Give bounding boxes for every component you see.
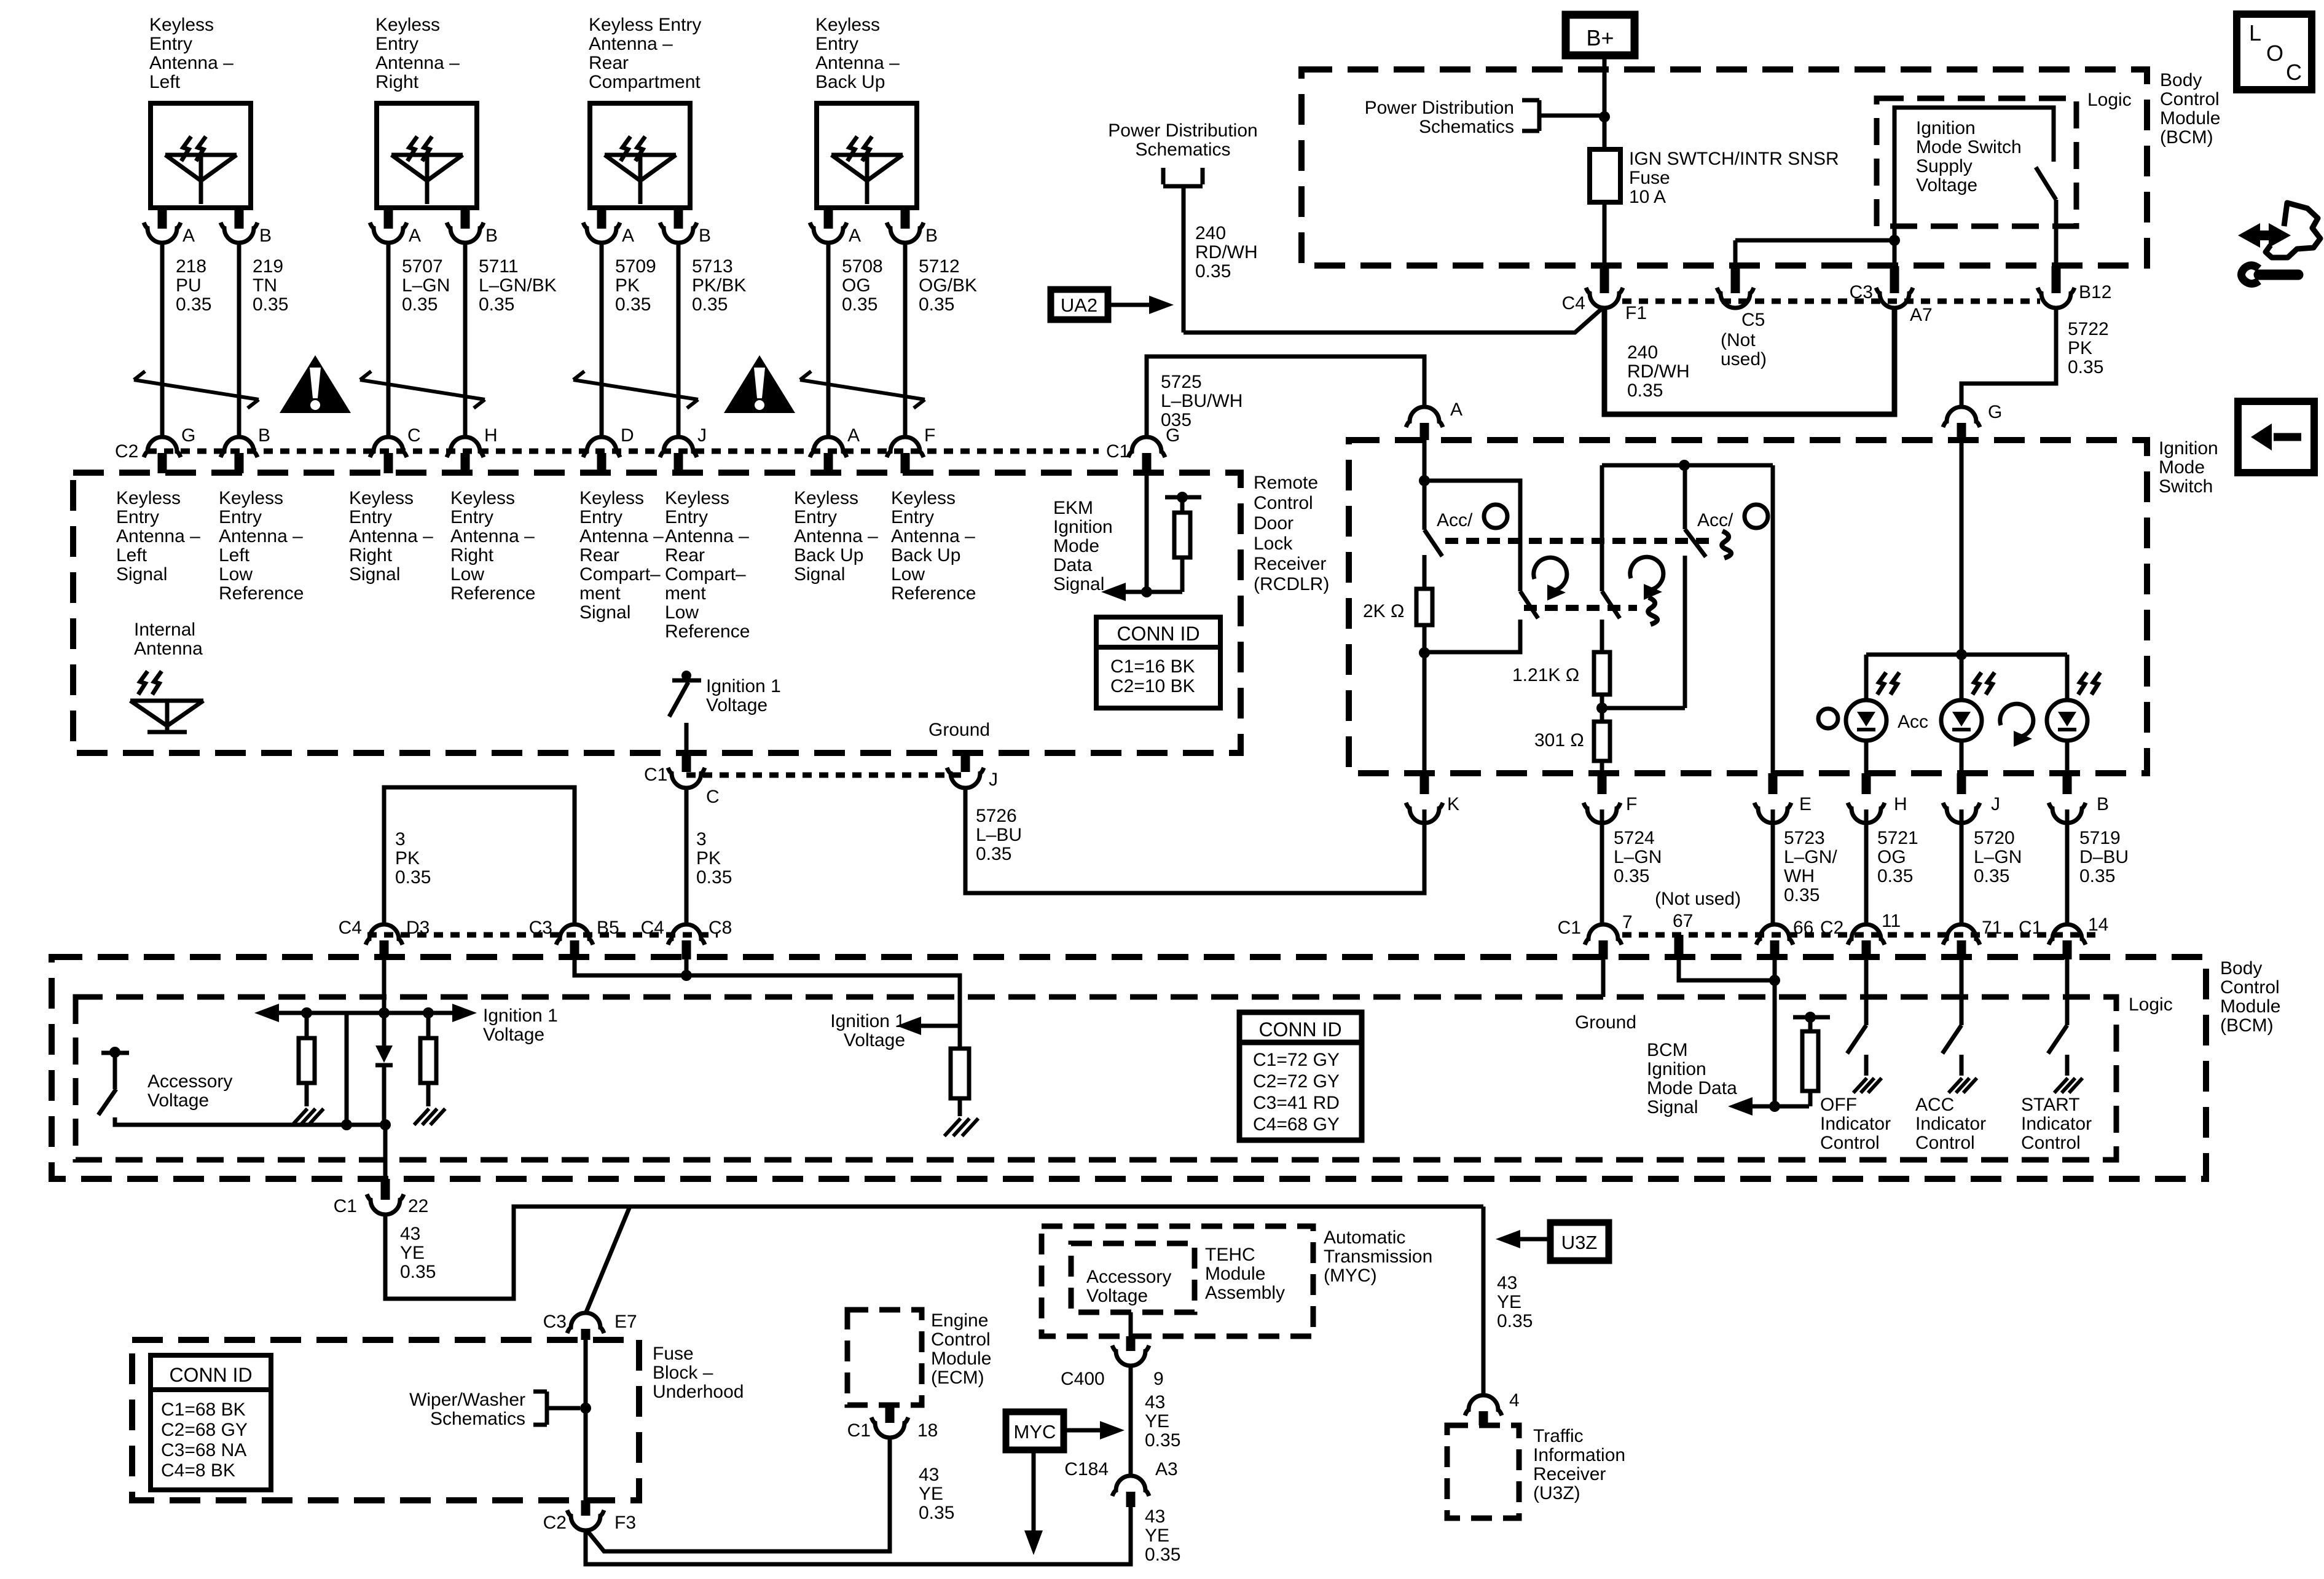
svg-text:YE: YE bbox=[919, 1484, 943, 1504]
BCM ground wire from pin 7 bbox=[1575, 959, 1636, 1033]
svg-text:0.35: 0.35 bbox=[842, 294, 877, 315]
RCDLR internal label: Antenna – Left Signal bbox=[116, 488, 200, 585]
antenna box: Keyless Entry Antenna – Back Up bbox=[817, 103, 917, 208]
svg-text:J: J bbox=[697, 425, 707, 446]
BCM ACC indicator driver bbox=[1915, 959, 1986, 1153]
svg-text:C3: C3 bbox=[1850, 282, 1873, 302]
label Body Control Module (BCM) lower bbox=[2220, 958, 2280, 1036]
svg-text:OG: OG bbox=[1877, 847, 1906, 867]
wire 5712 OG/BK 0.35 bbox=[905, 243, 977, 437]
svg-text:(ECM): (ECM) bbox=[931, 1368, 984, 1388]
svg-text:Acc/: Acc/ bbox=[1697, 510, 1733, 530]
B+ power feed box bbox=[1566, 15, 1635, 55]
svg-text:Compart–: Compart– bbox=[665, 564, 746, 585]
svg-text:Data: Data bbox=[1053, 555, 1093, 575]
wire 240 RD/WH from F1 to A7 (U path) bbox=[1604, 308, 1894, 414]
label: Keyless Entry Antenna – Left bbox=[149, 15, 234, 92]
Traffic Information Receiver dashed box bbox=[1447, 1425, 1519, 1518]
svg-text:Ignition 1: Ignition 1 bbox=[830, 1011, 905, 1031]
svg-text:ACC: ACC bbox=[1915, 1095, 1954, 1115]
connector pin A of Right antenna bbox=[370, 208, 421, 246]
svg-text:5713: 5713 bbox=[692, 256, 733, 277]
svg-text:Control: Control bbox=[1254, 493, 1313, 513]
connector pin A of Compartment antenna bbox=[583, 208, 634, 246]
warning triangle 2 bbox=[724, 355, 795, 413]
svg-text:0.35: 0.35 bbox=[615, 294, 651, 315]
connector pin B of Left antenna bbox=[221, 208, 272, 246]
BCM START indicator driver bbox=[2021, 959, 2092, 1153]
svg-text:Antenna –: Antenna – bbox=[116, 526, 200, 546]
IMS pin K bbox=[1406, 773, 1459, 823]
svg-text:TN: TN bbox=[253, 275, 277, 296]
RCDLR internal label: Antenna – Back Up Signal bbox=[794, 488, 878, 585]
svg-text:ment: ment bbox=[665, 583, 706, 604]
svg-text:C8: C8 bbox=[709, 918, 732, 938]
BCM internal resistor 2 to ground bbox=[414, 1013, 446, 1125]
svg-text:Module: Module bbox=[2160, 108, 2220, 128]
svg-text:71: 71 bbox=[1982, 918, 2002, 938]
svg-text:Signal: Signal bbox=[1647, 1097, 1698, 1117]
svg-text:Assembly: Assembly bbox=[1205, 1283, 1285, 1303]
accessory voltage dashed box bbox=[1071, 1243, 1195, 1312]
svg-text:F: F bbox=[924, 425, 935, 446]
label 43 YE 0.35 (A3 wire) bbox=[1145, 1506, 1180, 1565]
svg-text:Logic: Logic bbox=[2087, 90, 2132, 110]
BCM pin C8 (C4) bbox=[641, 918, 732, 959]
wire 43 YE C400 to C184 bbox=[1131, 1367, 1180, 1476]
label Ignition Mode Switch bbox=[2159, 438, 2218, 497]
svg-text:OG/BK: OG/BK bbox=[919, 275, 977, 296]
svg-text:Power Distribution: Power Distribution bbox=[1365, 98, 1514, 118]
svg-text:Mode Data: Mode Data bbox=[1647, 1078, 1737, 1098]
svg-text:Underhood: Underhood bbox=[653, 1382, 744, 1402]
svg-text:Module: Module bbox=[931, 1349, 991, 1369]
wire 5723 L-GN/WH (E to BCM 66) bbox=[1773, 809, 1837, 925]
IMS wafer D column (Acc/) bbox=[1602, 465, 1768, 708]
RCDLR internal label: Antenna – Rear Compart– ment Signal bbox=[579, 488, 664, 623]
BCM pin A7 (C3) bbox=[1850, 240, 1933, 325]
svg-text:Low: Low bbox=[219, 564, 253, 585]
IMS rotation symbol 1 bbox=[1534, 557, 1567, 600]
svg-text:G: G bbox=[1988, 402, 2002, 422]
BCM internal: B5/C8 to ignition1 resistor bbox=[575, 959, 960, 1026]
RCDLR internal label: Antenna – Back Up Low Reference bbox=[891, 488, 976, 604]
BCM pin 66 (C2) bbox=[1756, 918, 1843, 959]
svg-text:0.35: 0.35 bbox=[919, 294, 954, 315]
svg-text:O: O bbox=[2266, 41, 2283, 66]
svg-text:0.35: 0.35 bbox=[176, 294, 211, 315]
IMS pin F bbox=[1584, 773, 1637, 823]
BCM pin 71 bbox=[1943, 918, 2002, 959]
svg-text:D3: D3 bbox=[406, 918, 430, 938]
connector pin B of Compartment antenna bbox=[660, 208, 711, 246]
svg-text:Entry: Entry bbox=[219, 507, 262, 527]
svg-text:0.35: 0.35 bbox=[1497, 1311, 1533, 1331]
svg-text:66: 66 bbox=[1793, 918, 1813, 938]
svg-text:C4=8 BK: C4=8 BK bbox=[161, 1460, 235, 1481]
svg-text:Antenna –: Antenna – bbox=[375, 53, 460, 73]
svg-text:Engine: Engine bbox=[931, 1310, 988, 1331]
TEHC module assembly dashed box bbox=[1042, 1226, 1313, 1336]
svg-text:A3: A3 bbox=[1155, 1459, 1178, 1479]
IMS Acc/ label with circle (wafer A) bbox=[1437, 505, 1507, 530]
svg-text:G: G bbox=[181, 425, 195, 446]
svg-text:Mode: Mode bbox=[1053, 536, 1099, 556]
hand and wrench service icon bbox=[2238, 203, 2320, 284]
svg-text:Antenna –: Antenna – bbox=[794, 526, 878, 546]
svg-text:3: 3 bbox=[395, 829, 406, 849]
svg-text:(U3Z): (U3Z) bbox=[1533, 1483, 1580, 1503]
svg-text:B: B bbox=[2097, 794, 2109, 814]
svg-text:Low: Low bbox=[665, 602, 699, 623]
svg-text:H: H bbox=[1894, 794, 1907, 814]
BCM connector row dotted (right) bbox=[1622, 932, 2095, 938]
svg-text:Keyless: Keyless bbox=[891, 488, 956, 508]
svg-text:Keyless: Keyless bbox=[665, 488, 729, 508]
svg-text:4: 4 bbox=[1509, 1390, 1520, 1411]
svg-text:5721: 5721 bbox=[1877, 828, 1918, 848]
IMS mechanical link dashed line 2 bbox=[1524, 597, 1657, 624]
wiper/washer schematics reference bbox=[409, 1390, 580, 1429]
svg-text:Right: Right bbox=[375, 72, 419, 92]
svg-text:Lock: Lock bbox=[1254, 534, 1293, 554]
svg-text:C3=68 NA: C3=68 NA bbox=[161, 1440, 246, 1460]
svg-text:0.35: 0.35 bbox=[696, 867, 732, 888]
svg-text:PK: PK bbox=[395, 848, 420, 868]
svg-text:Ground: Ground bbox=[1575, 1012, 1636, 1033]
svg-text:C: C bbox=[407, 425, 421, 446]
svg-text:B: B bbox=[258, 425, 270, 446]
svg-text:Signal: Signal bbox=[349, 564, 400, 585]
svg-text:0.35: 0.35 bbox=[2079, 866, 2115, 886]
wire 5725 L-BU/WH 035 bbox=[1147, 356, 1424, 437]
svg-text:Fuse: Fuse bbox=[653, 1344, 694, 1364]
svg-text:C2=10 BK: C2=10 BK bbox=[1110, 676, 1195, 696]
svg-text:Remote: Remote bbox=[1254, 473, 1318, 493]
IMS pin G bbox=[1943, 402, 2002, 440]
svg-text:0.35: 0.35 bbox=[1614, 866, 1649, 886]
svg-text:Accessory: Accessory bbox=[1086, 1267, 1171, 1287]
svg-text:10 A: 10 A bbox=[1629, 187, 1666, 207]
svg-text:E: E bbox=[1799, 794, 1812, 814]
EKM wire from RCDLR C1-G down (internal) bbox=[1145, 455, 1149, 592]
BCM ignition mode data signal arrow bbox=[1647, 1040, 1809, 1117]
wire 5720 L-GN (J to BCM 71) bbox=[1961, 809, 2022, 925]
svg-text:Antenna –: Antenna – bbox=[149, 53, 234, 73]
RCDLR internal label: Antenna – Right Signal bbox=[349, 488, 433, 585]
Body Control Module top dashed box bbox=[1301, 69, 2147, 266]
svg-text:5709: 5709 bbox=[615, 256, 656, 277]
svg-text:Ground: Ground bbox=[928, 720, 990, 740]
BCM wire to pin 22 bbox=[383, 1125, 388, 1179]
svg-text:0.35: 0.35 bbox=[692, 294, 728, 315]
wire 240 RD/WH from fuse block feed (left) bbox=[1108, 120, 1257, 333]
connector C400 pin 9 bbox=[1061, 1345, 1164, 1389]
svg-text:Antenna –: Antenna – bbox=[349, 526, 433, 546]
svg-text:5724: 5724 bbox=[1614, 828, 1655, 848]
svg-text:Antenna –: Antenna – bbox=[665, 526, 749, 546]
label Logic (lower) bbox=[2129, 994, 2173, 1015]
RCDLR pin J bbox=[660, 425, 707, 473]
svg-text:43: 43 bbox=[400, 1224, 420, 1244]
RCDLR pin G bbox=[144, 425, 195, 473]
svg-text:0.35: 0.35 bbox=[479, 294, 514, 315]
svg-text:Antenna –: Antenna – bbox=[891, 526, 975, 546]
fuse block pin F3 (C2) bbox=[543, 1500, 636, 1533]
BCM pin B5 (C3) bbox=[529, 918, 619, 959]
svg-text:5719: 5719 bbox=[2079, 828, 2121, 848]
svg-text:18: 18 bbox=[917, 1420, 938, 1441]
LOC box bbox=[2237, 14, 2312, 90]
svg-text:Entry: Entry bbox=[665, 507, 708, 527]
svg-text:Left: Left bbox=[149, 72, 181, 92]
wire 5713 PK/BK 0.35 bbox=[678, 243, 746, 437]
svg-text:Antenna –: Antenna – bbox=[219, 526, 303, 546]
svg-text:Ignition 1: Ignition 1 bbox=[483, 1006, 558, 1026]
svg-text:C5: C5 bbox=[1741, 310, 1765, 330]
RCDLR ignition 1 voltage switch bbox=[669, 671, 781, 753]
svg-text:C2: C2 bbox=[543, 1513, 567, 1533]
svg-text:0.35: 0.35 bbox=[395, 867, 431, 888]
svg-text:Indicator: Indicator bbox=[1820, 1114, 1891, 1134]
svg-text:Schematics: Schematics bbox=[1135, 140, 1230, 160]
svg-text:Keyless: Keyless bbox=[815, 15, 880, 35]
wire branch down to fuse block E7 bbox=[586, 1207, 630, 1313]
svg-text:L–GN: L–GN bbox=[1614, 847, 1662, 867]
svg-text:Ignition: Ignition bbox=[1053, 517, 1113, 537]
BCM internal: 67 jumper to 66 bbox=[1679, 958, 1780, 986]
svg-text:1.21K Ω: 1.21K Ω bbox=[1512, 665, 1579, 685]
IMS pin A bbox=[1406, 400, 1462, 440]
antenna box: Keyless Entry Antenna – Left bbox=[151, 103, 251, 208]
svg-text:C2: C2 bbox=[115, 441, 138, 462]
svg-text:K: K bbox=[1447, 794, 1459, 814]
connector line C1 (RCDLR bottom) dotted bbox=[686, 773, 965, 778]
svg-text:5707: 5707 bbox=[402, 256, 443, 277]
svg-text:Mode Switch: Mode Switch bbox=[1916, 137, 2022, 157]
BCM internal resistor 1 to ground bbox=[292, 1013, 324, 1125]
BCM lower Logic dashed box bbox=[76, 997, 2116, 1160]
RCDLR internal label: Antenna – Left Low Reference bbox=[219, 488, 304, 604]
svg-text:Entry: Entry bbox=[116, 507, 159, 527]
svg-text:5708: 5708 bbox=[842, 256, 883, 277]
BCM pin D3 (C4) bbox=[339, 918, 430, 959]
svg-text:Keyless: Keyless bbox=[450, 488, 515, 508]
label Traffic Information Receiver (U3Z) bbox=[1533, 1426, 1625, 1503]
svg-text:Keyless: Keyless bbox=[375, 15, 440, 35]
svg-text:J: J bbox=[989, 770, 998, 790]
IMS LED 2 (Acc) bbox=[1941, 655, 1995, 773]
twisted-pair mark on antenna 1 wires bbox=[134, 371, 259, 408]
svg-text:Voltage: Voltage bbox=[483, 1025, 544, 1045]
svg-text:C1: C1 bbox=[1106, 441, 1129, 462]
svg-text:F: F bbox=[1626, 794, 1637, 814]
svg-text:YE: YE bbox=[400, 1243, 425, 1263]
svg-text:Receiver: Receiver bbox=[1254, 554, 1326, 574]
twisted-pair mark on antenna 3 wires bbox=[573, 371, 698, 408]
svg-text:C1: C1 bbox=[334, 1196, 357, 1216]
svg-text:D–BU: D–BU bbox=[2079, 847, 2129, 867]
svg-text:Acc/: Acc/ bbox=[1437, 510, 1473, 530]
wire 43 YE to traffic information receiver bbox=[1483, 1207, 1533, 1396]
RCDLR ground wire to pin J bbox=[928, 720, 990, 772]
svg-text:C400: C400 bbox=[1061, 1369, 1105, 1389]
svg-text:Entry: Entry bbox=[149, 34, 192, 54]
svg-text:B: B bbox=[925, 226, 938, 246]
IMS wafer C column with 1.21K and 301 resistors bbox=[1512, 465, 1620, 773]
RCDLR pin G bbox=[1128, 425, 1180, 473]
svg-text:Back Up: Back Up bbox=[794, 545, 863, 565]
TEHC wire down to C400 bbox=[1129, 1312, 1133, 1351]
svg-text:OFF: OFF bbox=[1820, 1095, 1857, 1115]
wire 5711 L–GN/BK 0.35 bbox=[465, 243, 557, 437]
svg-text:Antenna: Antenna bbox=[134, 639, 203, 659]
svg-text:0.35: 0.35 bbox=[1627, 380, 1663, 401]
label Logic (top box) bbox=[2087, 90, 2132, 110]
connector row dotted (BCM top box) bbox=[1622, 299, 2040, 304]
svg-text:Control: Control bbox=[931, 1329, 991, 1350]
wire 5709 PK 0.35 bbox=[602, 243, 656, 437]
svg-text:H: H bbox=[484, 425, 498, 446]
svg-text:Transmission: Transmission bbox=[1324, 1246, 1432, 1267]
IMS pin E bbox=[1754, 773, 1812, 823]
RCDLR pin F bbox=[887, 425, 935, 473]
svg-text:B+: B+ bbox=[1586, 25, 1614, 50]
svg-text:PK: PK bbox=[696, 848, 721, 868]
svg-text:Keyless Entry: Keyless Entry bbox=[589, 15, 701, 35]
label C1 (RCDLR second connector) bbox=[1106, 441, 1129, 462]
svg-text:B5: B5 bbox=[597, 918, 619, 938]
svg-text:A: A bbox=[622, 226, 634, 246]
svg-text:Power Distribution: Power Distribution bbox=[1108, 120, 1257, 141]
BCM pin 22 (C1) bbox=[334, 1179, 429, 1216]
RCDLR pin A bbox=[810, 425, 860, 473]
svg-text:240: 240 bbox=[1195, 223, 1226, 243]
svg-text:A: A bbox=[1450, 400, 1462, 420]
svg-text:IGN SWTCH/INTR SNSR: IGN SWTCH/INTR SNSR bbox=[1629, 149, 1839, 169]
svg-text:C: C bbox=[706, 787, 720, 807]
svg-text:Keyless: Keyless bbox=[149, 15, 214, 35]
svg-text:Antenna –: Antenna – bbox=[579, 526, 664, 546]
UA2 reference box with arrow bbox=[1051, 289, 1174, 320]
svg-text:Signal: Signal bbox=[1053, 574, 1104, 594]
wire 3 PK from RCDLR C to BCM C8 bbox=[686, 788, 732, 924]
label C2 bbox=[115, 441, 138, 462]
svg-text:B: B bbox=[699, 226, 711, 246]
twisted-pair mark on antenna 4 wires bbox=[800, 371, 925, 408]
BCM ignition 1 voltage arrow (middle) bbox=[830, 1011, 960, 1050]
ECM pin 18 (C1) bbox=[847, 1405, 938, 1441]
svg-text:Entry: Entry bbox=[815, 34, 858, 54]
svg-text:Body: Body bbox=[2160, 70, 2202, 90]
svg-text:Voltage: Voltage bbox=[147, 1090, 209, 1111]
svg-text:A: A bbox=[849, 226, 861, 246]
svg-text:Back Up: Back Up bbox=[891, 545, 960, 565]
label Engine Control Module (ECM) bbox=[931, 1310, 991, 1388]
wire 43 YE from F3 to C184 A3 bbox=[586, 1506, 1131, 1564]
svg-text:Entry: Entry bbox=[375, 34, 418, 54]
svg-text:C3: C3 bbox=[543, 1312, 567, 1332]
Fuse Block - Underhood dashed box bbox=[132, 1340, 639, 1500]
svg-text:Receiver: Receiver bbox=[1533, 1464, 1606, 1484]
svg-text:YE: YE bbox=[1145, 1526, 1169, 1546]
connector pin B of Right antenna bbox=[447, 208, 498, 246]
svg-text:C4=68 GY: C4=68 GY bbox=[1253, 1114, 1340, 1135]
svg-text:Control: Control bbox=[1820, 1133, 1880, 1153]
label: Keyless Entry Antenna – Back Up bbox=[815, 15, 900, 92]
svg-text:B: B bbox=[485, 226, 498, 246]
svg-text:5711: 5711 bbox=[479, 256, 519, 277]
label 43 YE 0.35 (ECM wire) bbox=[919, 1465, 954, 1523]
Body Control Module lower dashed box bbox=[52, 957, 2206, 1179]
svg-text:A: A bbox=[847, 425, 860, 446]
svg-text:Entry: Entry bbox=[794, 507, 837, 527]
connector pin A of Left antenna bbox=[144, 208, 195, 246]
svg-text:Keyless: Keyless bbox=[794, 488, 858, 508]
svg-text:9: 9 bbox=[1153, 1369, 1164, 1389]
svg-text:Entry: Entry bbox=[450, 507, 493, 527]
wire 219 TN 0.35 bbox=[239, 243, 288, 437]
svg-text:(RCDLR): (RCDLR) bbox=[1254, 574, 1329, 594]
wire 5708 OG 0.35 bbox=[828, 243, 883, 437]
connector pin B of Back Up antenna bbox=[887, 208, 938, 246]
IMS data bar (wafers C/D/E) bbox=[1602, 460, 1773, 471]
svg-text:YE: YE bbox=[1497, 1292, 1521, 1312]
wire 5726 L-BU from RCDLR J to IMS K bbox=[965, 788, 1424, 893]
svg-text:C3: C3 bbox=[529, 918, 552, 938]
svg-text:L–GN: L–GN bbox=[402, 275, 450, 296]
BCM internal: 66 wire down bbox=[1769, 959, 1780, 1112]
wire UA2/240 to C4-F1 bbox=[1184, 309, 1602, 333]
svg-text:CONN ID: CONN ID bbox=[1258, 1018, 1341, 1041]
label: Body Control Module (BCM) top bbox=[2160, 70, 2220, 148]
svg-text:MYC: MYC bbox=[1014, 1421, 1056, 1443]
svg-text:0.35: 0.35 bbox=[1877, 866, 1913, 886]
supply voltage internal switch bbox=[1894, 108, 2056, 266]
label Acc (LED) bbox=[1898, 712, 1928, 732]
svg-text:Body: Body bbox=[2220, 958, 2262, 979]
label: Keyless Entry Antenna – Right bbox=[375, 15, 460, 92]
svg-text:Fuse: Fuse bbox=[1629, 168, 1670, 188]
label Automatic Transmission (MYC) bbox=[1324, 1227, 1432, 1286]
svg-text:Reference: Reference bbox=[665, 621, 750, 642]
RCDLR pin B bbox=[221, 425, 270, 473]
svg-text:Supply: Supply bbox=[1916, 156, 1973, 176]
RCDLR pin H bbox=[447, 425, 498, 473]
svg-text:C4: C4 bbox=[339, 918, 362, 938]
svg-text:Voltage: Voltage bbox=[706, 695, 767, 715]
svg-text:Keyless: Keyless bbox=[349, 488, 414, 508]
svg-text:C3=41 RD: C3=41 RD bbox=[1253, 1093, 1340, 1113]
RCDLR internal label: Antenna – Right Low Reference bbox=[450, 488, 535, 604]
svg-text:F1: F1 bbox=[1625, 303, 1647, 323]
BCM internal: D3 wire to ignition1 bus bbox=[379, 959, 390, 1018]
svg-text:Control: Control bbox=[2021, 1133, 2081, 1153]
RCDLR bottom pin C bbox=[644, 753, 720, 807]
wire fuse to C4-F1 bbox=[1603, 202, 1607, 266]
IMS wafer A column with 2K resistor bbox=[1363, 440, 1442, 773]
svg-text:5712: 5712 bbox=[919, 256, 960, 277]
svg-text:035: 035 bbox=[1161, 410, 1191, 430]
svg-text:U3Z: U3Z bbox=[1561, 1232, 1598, 1253]
label TEHC Module Assembly bbox=[1205, 1245, 1285, 1303]
svg-text:0.35: 0.35 bbox=[919, 1503, 954, 1523]
svg-text:Antenna –: Antenna – bbox=[589, 34, 673, 54]
svg-text:Control: Control bbox=[1915, 1133, 1975, 1153]
IMS rotation symbol 1b bbox=[1630, 557, 1663, 600]
IMS LED 3 (Start) bbox=[2047, 655, 2100, 773]
svg-text:5720: 5720 bbox=[1974, 828, 2015, 848]
